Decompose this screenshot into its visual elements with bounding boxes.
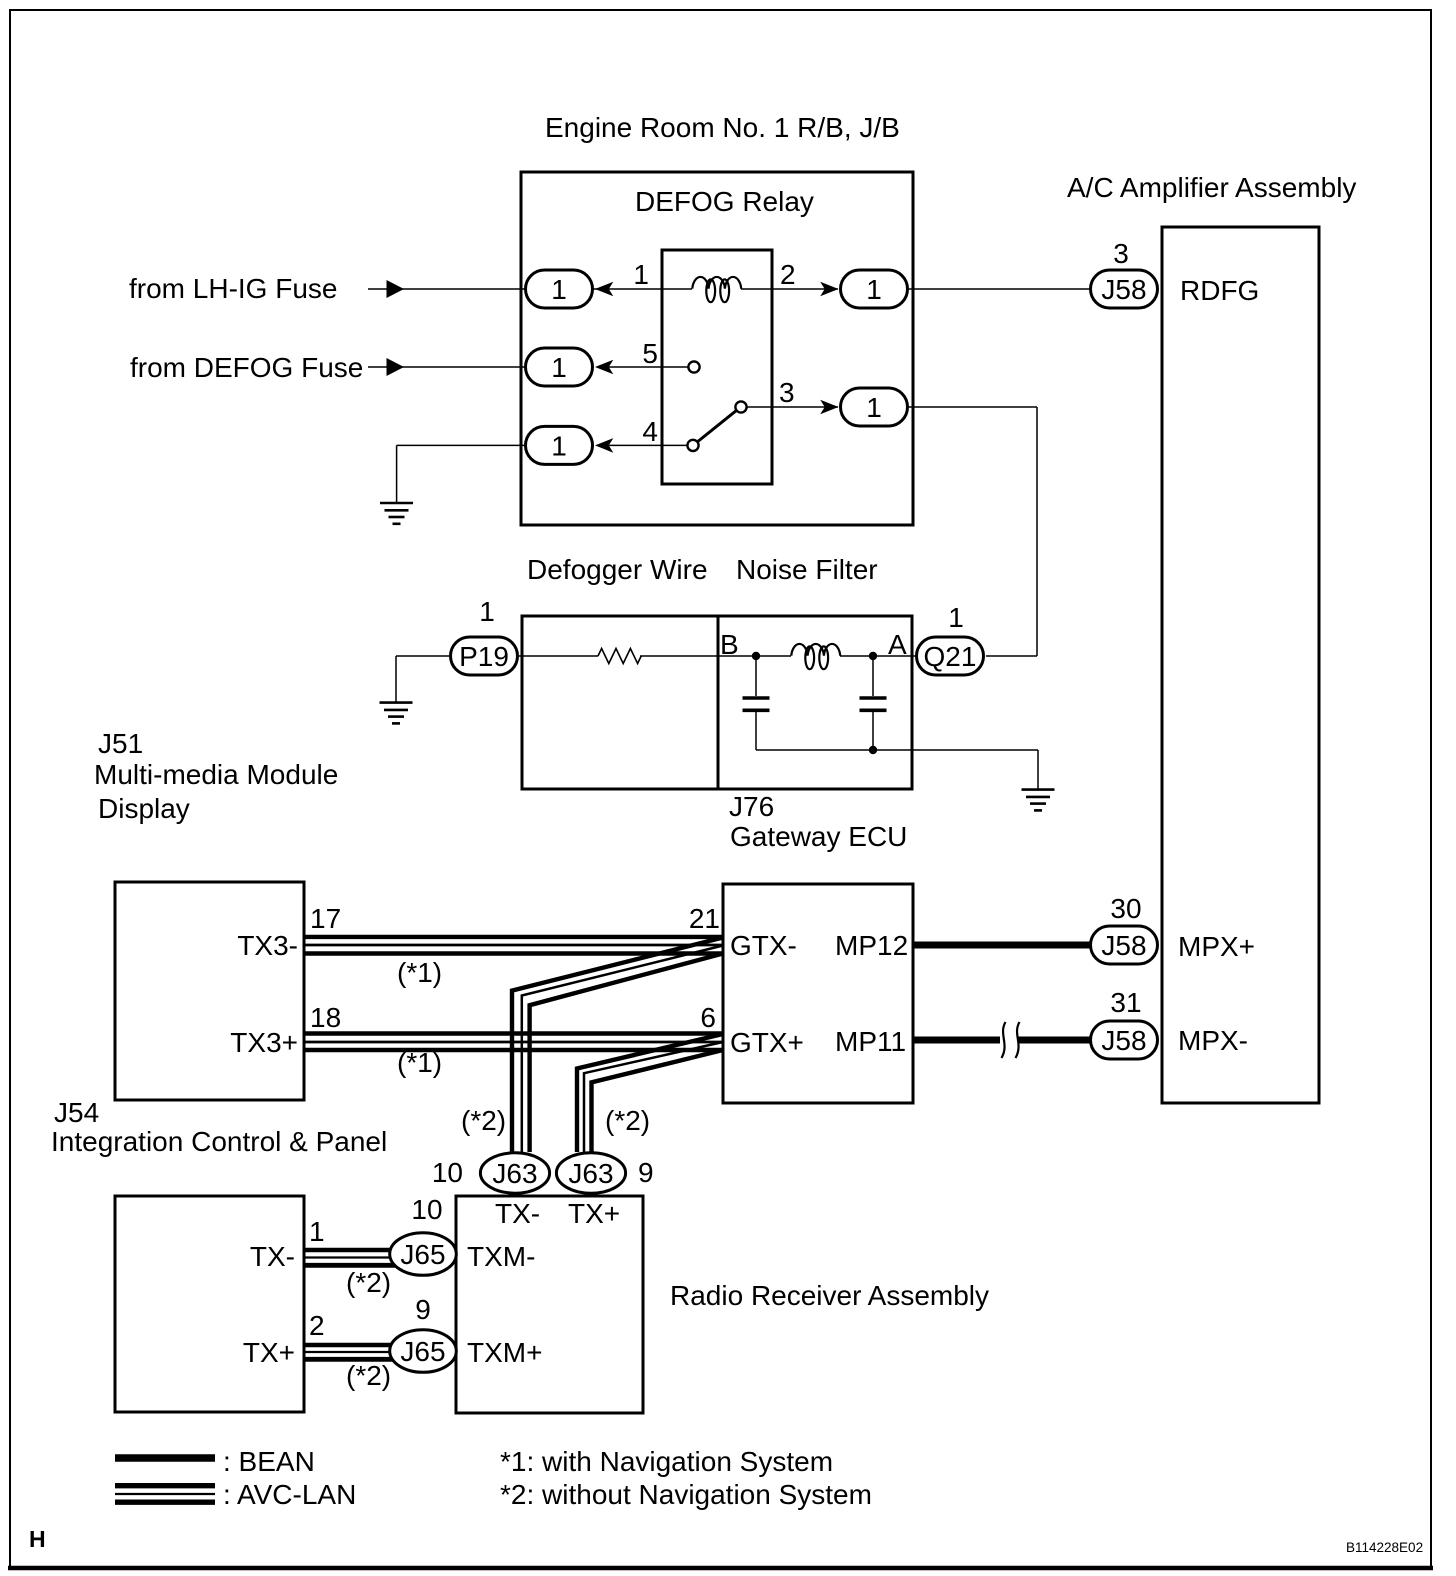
- connector oval relay pin1: [526, 270, 593, 308]
- switch contact pin3: [735, 401, 746, 412]
- svg-text:(*2): (*2): [346, 1267, 391, 1298]
- svg-text:Display: Display: [98, 793, 190, 824]
- pin number 30: [1110, 893, 1141, 924]
- svg-text:1: 1: [309, 1216, 325, 1247]
- page marker H: [29, 1526, 46, 1552]
- label TX- left: [250, 1241, 295, 1272]
- svg-text:B114228E02: B114228E02: [1346, 1540, 1423, 1555]
- svg-text:1: 1: [866, 274, 882, 305]
- connector oval relay pin5: [526, 348, 593, 386]
- relay inner box: [662, 250, 772, 484]
- label J51 Multi-media Module Display: [94, 728, 338, 824]
- wire relay to J58 RDFG: [909, 288, 1090, 290]
- svg-text:Defogger Wire: Defogger Wire: [527, 554, 708, 585]
- arrow on DEFOG wire: [387, 358, 405, 376]
- svg-text:6: 6: [700, 1002, 716, 1033]
- label MP11: [835, 1026, 906, 1057]
- svg-text:: BEAN: : BEAN: [223, 1446, 315, 1477]
- label MPX-: [1178, 1025, 1248, 1056]
- svg-text:1: 1: [633, 259, 649, 290]
- Radio Receiver Assembly box: [456, 1196, 643, 1413]
- svg-text:17: 17: [310, 903, 341, 934]
- connector oval P19: [451, 637, 518, 675]
- wire coil to Q21: [840, 655, 915, 657]
- svg-text:Gateway ECU: Gateway ECU: [730, 821, 907, 852]
- svg-text:TX+: TX+: [568, 1198, 620, 1229]
- svg-text:1: 1: [866, 392, 882, 423]
- svg-text:B: B: [720, 629, 739, 660]
- svg-text:Radio Receiver Assembly: Radio Receiver Assembly: [670, 1280, 989, 1311]
- svg-text:TX+: TX+: [243, 1337, 295, 1368]
- label A/C Amplifier Assembly: [1067, 172, 1356, 203]
- svg-text:1: 1: [551, 430, 567, 461]
- pin number 2: [780, 259, 796, 290]
- wire ground to relay pin 4 oval: [397, 445, 525, 503]
- svg-text:TXM-: TXM-: [467, 1241, 535, 1272]
- label (*2) first: [461, 1105, 506, 1136]
- label GTX-: [730, 930, 797, 961]
- note *1 with Navigation System: [500, 1446, 833, 1477]
- label J76 Gateway ECU: [729, 791, 907, 852]
- svg-text:1: 1: [551, 274, 567, 305]
- arrow into pin5 oval: [595, 360, 613, 375]
- legend label BEAN: [223, 1446, 315, 1477]
- svg-text:10: 10: [411, 1194, 442, 1225]
- label from DEFOG Fuse: [130, 352, 363, 383]
- svg-text:DEFOG Relay: DEFOG Relay: [635, 186, 814, 217]
- svg-text:2: 2: [309, 1310, 325, 1341]
- svg-text:*2: without Navigation System: *2: without Navigation System: [500, 1479, 872, 1510]
- svg-text:J54: J54: [54, 1097, 99, 1128]
- arrow into pin1 oval: [595, 282, 613, 297]
- label (*1) upper: [397, 957, 442, 988]
- label (*2) third: [346, 1267, 391, 1298]
- connector oval J58 MPX+: [1091, 926, 1158, 964]
- svg-text:10: 10: [432, 1157, 463, 1188]
- switch blade: [698, 411, 737, 442]
- label (*1) lower: [397, 1047, 442, 1078]
- label Radio Receiver Assembly: [670, 1280, 989, 1311]
- label Defogger Wire: [527, 554, 708, 585]
- svg-text:(*1): (*1): [397, 1047, 442, 1078]
- svg-text:Noise Filter: Noise Filter: [736, 554, 878, 585]
- svg-text:31: 31: [1110, 987, 1141, 1018]
- svg-text:J63: J63: [492, 1158, 537, 1189]
- svg-text:A: A: [888, 629, 907, 660]
- wire P19 to ground: [396, 656, 449, 703]
- label (*2) second: [605, 1105, 650, 1136]
- label (*2) fourth: [346, 1360, 391, 1391]
- svg-text:RDFG: RDFG: [1180, 275, 1259, 306]
- svg-text:J76: J76: [729, 791, 774, 822]
- AVC-LAN bus TX+ to J65: [304, 1345, 395, 1359]
- wire relay row 3: [747, 406, 838, 408]
- relay block Engine Room No.1 R/B J/B box: [521, 172, 913, 525]
- label DEFOG Relay: [635, 186, 814, 217]
- node B: [720, 629, 760, 660]
- svg-text:1: 1: [948, 602, 964, 633]
- wire break marks: [1002, 1022, 1020, 1058]
- AVC-LAN bus TX3- to GTX-: [304, 937, 723, 954]
- svg-text:30: 30: [1110, 893, 1141, 924]
- Gateway ECU box: [723, 884, 913, 1103]
- pin number 1 above Q21: [948, 602, 964, 633]
- label Noise Filter: [736, 554, 878, 585]
- svg-text:J63: J63: [568, 1158, 613, 1189]
- pin number 3: [779, 377, 795, 408]
- pin number 21: [689, 903, 720, 934]
- svg-text:: AVC-LAN: : AVC-LAN: [223, 1479, 356, 1510]
- switch contact pin4: [687, 440, 698, 451]
- svg-text:J58: J58: [1101, 1025, 1146, 1056]
- BEAN wire MP12 to J58: [913, 942, 1090, 949]
- svg-text:*1: with Navigation System: *1: with Navigation System: [500, 1446, 833, 1477]
- ground symbol at relay pin 4: [380, 503, 413, 524]
- svg-text:J65: J65: [400, 1239, 445, 1270]
- svg-text:5: 5: [642, 338, 658, 369]
- capacitor left: [743, 656, 770, 750]
- label TX+ radio top: [568, 1198, 620, 1229]
- svg-text:MP12: MP12: [835, 930, 908, 961]
- svg-text:A/C Amplifier Assembly: A/C Amplifier Assembly: [1067, 172, 1356, 203]
- svg-text:(*2): (*2): [346, 1360, 391, 1391]
- svg-text:1: 1: [551, 352, 567, 383]
- J54 Integration Control & Panel box: [115, 882, 304, 1100]
- pin number 4: [642, 416, 658, 447]
- legend BEAN line: [115, 1454, 215, 1461]
- pin number 2: [309, 1310, 325, 1341]
- A/C Amplifier Assembly box: [1162, 227, 1319, 1103]
- svg-text:J51: J51: [98, 728, 143, 759]
- AVC-LAN branch GTX+ to J63 right: [577, 1034, 723, 1152]
- pin number 1 above P19: [479, 596, 495, 627]
- svg-text:J65: J65: [400, 1336, 445, 1367]
- wire capacitors common to ground: [756, 746, 1038, 790]
- noise filter coil: [791, 644, 840, 669]
- wire from LH-IG Fuse to relay pin 1 oval: [368, 288, 525, 290]
- pin number 5: [642, 338, 658, 369]
- connector oval J58 RDFG: [1091, 270, 1158, 308]
- BEAN wire MP11 to J58 with break: [913, 1037, 1090, 1044]
- svg-text:MPX-: MPX-: [1178, 1025, 1248, 1056]
- svg-text:Multi-media Module: Multi-media Module: [94, 759, 338, 790]
- svg-text:Integration Control & Panel: Integration Control & Panel: [51, 1126, 387, 1157]
- svg-text:J58: J58: [1101, 930, 1146, 961]
- connector oval relay pin3 out: [841, 388, 908, 426]
- svg-text:(*2): (*2): [461, 1105, 506, 1136]
- svg-text:GTX-: GTX-: [730, 930, 797, 961]
- pin number 1: [633, 259, 649, 290]
- relay coil-side switch contact pin5: [688, 361, 699, 372]
- defogger wire box: [522, 616, 718, 789]
- svg-text:TX-: TX-: [495, 1198, 540, 1229]
- figure number B114228E02: [1346, 1540, 1423, 1555]
- label RDFG: [1180, 275, 1259, 306]
- legend AVC-LAN lines: [115, 1486, 215, 1503]
- wire relay row 4: [600, 444, 687, 446]
- svg-text:Engine Room No. 1 R/B, J/B: Engine Room No. 1 R/B, J/B: [545, 112, 900, 143]
- svg-text:H: H: [29, 1526, 46, 1552]
- svg-text:9: 9: [638, 1157, 654, 1188]
- svg-text:21: 21: [689, 903, 720, 934]
- svg-text:2: 2: [780, 259, 796, 290]
- label TX- radio top: [495, 1198, 540, 1229]
- svg-text:3: 3: [779, 377, 795, 408]
- label Engine Room No. 1 R/B, J/B: [545, 112, 900, 143]
- pin number 10 above J65: [411, 1194, 442, 1225]
- wire from DEFOG Fuse to relay pin 5 oval: [368, 366, 525, 368]
- AVC-LAN bus TX3+ to GTX+: [304, 1034, 723, 1051]
- label TX3+: [230, 1027, 298, 1058]
- label from LH-IG Fuse: [129, 273, 337, 304]
- connector oval J63 left: [480, 1153, 549, 1193]
- AVC-LAN branch GTX- to J63 left: [512, 938, 723, 1153]
- svg-text:Q21: Q21: [924, 641, 977, 672]
- svg-text:3: 3: [1113, 238, 1129, 269]
- svg-text:(*2): (*2): [605, 1105, 650, 1136]
- label TXM+: [467, 1337, 542, 1368]
- svg-text:18: 18: [310, 1002, 341, 1033]
- connector oval relay pin4: [526, 426, 593, 464]
- svg-text:(*1): (*1): [397, 957, 442, 988]
- legend label AVC-LAN: [223, 1479, 356, 1510]
- connector oval J58 MPX-: [1091, 1021, 1158, 1059]
- svg-text:from DEFOG Fuse: from DEFOG Fuse: [130, 352, 363, 383]
- node A: [869, 629, 907, 660]
- wire relay row1 left segment: [593, 288, 692, 290]
- connector oval J65 lower: [390, 1330, 457, 1373]
- svg-text:TX3+: TX3+: [230, 1027, 298, 1058]
- capacitor right: [860, 656, 887, 750]
- wire relay row1 right segment: [741, 288, 838, 290]
- svg-text:TX3-: TX3-: [237, 930, 298, 961]
- pin number 1: [309, 1216, 325, 1247]
- pin number 31: [1110, 987, 1141, 1018]
- svg-text:9: 9: [415, 1294, 431, 1325]
- pin number 18: [310, 1002, 341, 1033]
- note *2 without Navigation System: [500, 1479, 872, 1510]
- label TXM-: [467, 1241, 535, 1272]
- connector oval J65 upper: [390, 1233, 457, 1276]
- arrow into row1 right oval: [820, 282, 838, 297]
- noise filter box: [718, 616, 912, 789]
- relay coil: [692, 277, 741, 302]
- arrow into pin4 oval: [595, 438, 613, 453]
- connector oval Q21: [917, 637, 984, 675]
- wire relay row 5: [600, 366, 688, 368]
- svg-text:GTX+: GTX+: [730, 1027, 804, 1058]
- label J54 Integration Control & Panel: [51, 1097, 387, 1157]
- connector oval relay pin2 out: [841, 270, 908, 308]
- svg-text:MP11: MP11: [835, 1026, 906, 1057]
- J51 display box: [115, 1196, 304, 1412]
- wire relay pin3 to Q21: [909, 407, 1037, 656]
- arrow on LH-IG wire: [387, 280, 405, 298]
- connector oval J63 right: [556, 1153, 625, 1193]
- svg-text:TX-: TX-: [250, 1241, 295, 1272]
- pin number 9 at J63: [638, 1157, 654, 1188]
- AVC-LAN bus TX- to J65: [304, 1250, 395, 1265]
- wire defogger resistor row: [519, 655, 791, 657]
- ground symbol at noise filter: [1022, 790, 1055, 811]
- pin number 6: [700, 1002, 716, 1033]
- svg-text:from LH-IG Fuse: from LH-IG Fuse: [129, 273, 337, 304]
- ground symbol at P19: [380, 703, 413, 724]
- pin number 9 above J65: [415, 1294, 431, 1325]
- arrow into row3 right oval: [820, 400, 838, 415]
- svg-text:P19: P19: [459, 641, 509, 672]
- pin number 10 at J63: [432, 1157, 463, 1188]
- pin number 3 above J58: [1113, 238, 1129, 269]
- svg-text:TXM+: TXM+: [467, 1337, 542, 1368]
- pin number 17: [310, 903, 341, 934]
- svg-text:MPX+: MPX+: [1178, 931, 1255, 962]
- svg-text:1: 1: [479, 596, 495, 627]
- label MP12: [835, 930, 908, 961]
- label TX+ left: [243, 1337, 295, 1368]
- label TX3-: [237, 930, 298, 961]
- svg-text:4: 4: [642, 416, 658, 447]
- defogger wire resistor: [598, 649, 641, 664]
- svg-text:J58: J58: [1101, 274, 1146, 305]
- label MPX+: [1178, 931, 1255, 962]
- label GTX+: [730, 1027, 804, 1058]
